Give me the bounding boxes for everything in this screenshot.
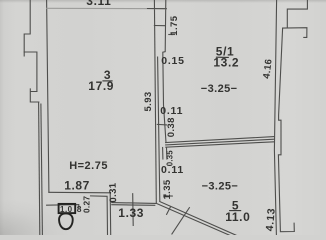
svg-text:1.87: 1.87 [64,179,90,193]
wall diagonal outer [156,203,231,236]
wall diagonal inner [160,202,236,236]
wall corridor threshold double lower [112,204,155,207]
svg-text:0.11: 0.11 [160,105,183,117]
svg-text:11.0: 11.0 [225,210,250,224]
wall WC top inner [47,205,79,208]
wall triple 5/1|5 line3 [166,142,274,147]
wall middle door head connector [154,25,164,27]
svg-text:−3.25−: −3.25− [202,181,239,193]
svg-text:17.9: 17.9 [88,79,114,93]
dim line 3.11 dark right part [148,8,167,10]
svg-text:3.11: 3.11 [86,0,111,8]
svg-text:0.27: 0.27 [82,196,92,213]
underline room5 [229,210,241,212]
tick across diagonal [167,207,171,215]
wall corridor threshold double upper [112,202,156,205]
wall WC right inner corner [91,196,108,235]
svg-text:0.38: 0.38 [166,117,177,137]
tick long stroke across diagonal [172,208,190,234]
svg-text:1.33: 1.33 [118,206,144,220]
svg-text:−3.25−: −3.25− [201,83,238,95]
wall triple 5/1|5 line2 [166,139,274,145]
wall middle stub left below triple [162,148,164,160]
wall right outer with jogs [278,28,294,231]
svg-text:0.31: 0.31 [107,182,119,203]
toilet bowl [59,213,73,229]
svg-text:1.35: 1.35 [162,179,173,199]
wire top right zigzag [287,0,307,28]
wall left double partition outer [39,102,40,235]
wire left stair zigzag upper [24,0,30,56]
wall middle 5/1 face upper [163,0,166,143]
svg-text:4.13: 4.13 [264,207,278,232]
wire left stair zigzag lower [30,89,39,102]
wall middle second line [158,57,160,201]
wall left double partition inner [41,104,43,235]
svg-text:H=2.75: H=2.75 [69,160,108,172]
wall middle stub right below triple [166,148,168,160]
tick 1.33 vertical [132,194,135,226]
tick between 0.11 and 0.38 [157,123,166,126]
svg-text:5.93: 5.93 [143,91,154,111]
toilet tank [59,204,76,213]
wire top right ledge [283,28,307,38]
wall triple 5/1|5 line1 [166,137,274,143]
tick 1.35 arrow dot [163,194,166,197]
svg-text:1.75: 1.75 [169,15,180,35]
dim line 3.11 [47,7,167,9]
svg-text:4.16: 4.16 [261,58,274,79]
wire left stair zigzag middle [24,52,37,92]
svg-text:13.2: 13.2 [213,55,239,69]
svg-text:0.11: 0.11 [161,164,184,176]
tick 1.35 bottom [165,195,172,197]
wall middle room3 right face [154,0,156,203]
underline room3 [102,80,112,82]
svg-text:0.15: 0.15 [161,55,185,67]
underline 5/1 [216,56,229,58]
wall right inner [274,0,276,235]
wall room3 left [47,0,49,192]
wall room3 bottom / WC top outer [49,192,111,235]
tick small at 0.15 pointer [169,34,175,36]
